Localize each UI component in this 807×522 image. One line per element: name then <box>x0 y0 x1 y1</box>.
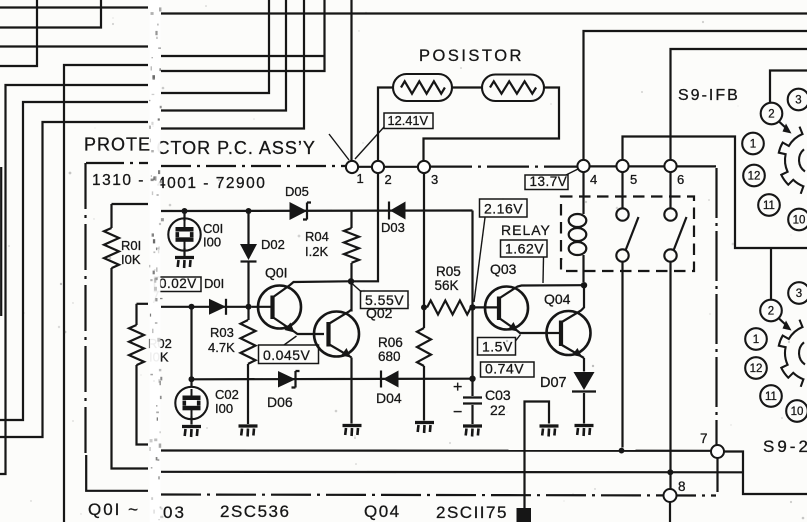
wire W7 left continuation <box>0 85 148 474</box>
svg-text:10: 10 <box>793 215 806 227</box>
wire W9 left continuation <box>0 122 148 437</box>
svg-text:8: 8 <box>678 479 686 494</box>
resistor R05 <box>427 301 471 315</box>
svg-text:Q03: Q03 <box>490 261 517 277</box>
wire ground loop <box>525 402 550 511</box>
svg-text:3: 3 <box>795 95 801 107</box>
ground loop gnd <box>540 426 559 437</box>
svg-text:2.16V: 2.16V <box>484 201 523 217</box>
svg-text:0.045V: 0.045V <box>263 347 311 363</box>
protector box bottom-left heavy corner <box>86 455 148 491</box>
svg-text:56K: 56K <box>435 278 459 293</box>
svg-text:1: 1 <box>357 171 364 186</box>
node 8 <box>664 489 677 502</box>
S9-2 contact 10 <box>786 400 807 422</box>
svg-text:0.74V: 0.74V <box>485 361 524 377</box>
wire node 8 down <box>669 502 671 522</box>
wire D03 row corner down <box>471 211 473 308</box>
svg-text:S9-2: S9-2 <box>763 437 807 456</box>
diode D05 <box>290 202 312 220</box>
node 1 <box>346 161 358 173</box>
svg-text:D07: D07 <box>540 375 567 391</box>
junction R05 left <box>421 304 427 310</box>
protector box top border heavy node4-node6 <box>577 165 716 167</box>
relay contact A <box>616 173 638 448</box>
leader 1.5V <box>516 335 521 342</box>
ground Q02 <box>343 426 362 437</box>
leader 5.55V <box>352 284 362 293</box>
S9-1FB contact 2 <box>761 103 783 125</box>
svg-text:22: 22 <box>490 402 506 418</box>
svg-text:11: 11 <box>765 391 777 403</box>
svg-text:D04: D04 <box>376 390 402 406</box>
wire W8 corner from top <box>161 0 286 111</box>
S9-2 rotor <box>779 320 805 387</box>
label 0.02V <box>155 277 202 292</box>
wire W7 corner from top <box>161 0 269 93</box>
svg-text:I00: I00 <box>215 401 233 416</box>
resistor R04 <box>344 211 359 279</box>
diode D06 <box>278 371 300 388</box>
S9-2 contact 11 <box>760 385 782 407</box>
capacitor C03 <box>463 379 482 424</box>
transistor Q03 <box>476 285 582 333</box>
wire Q03 base node to C03 <box>471 307 473 378</box>
diode D02 <box>240 211 257 307</box>
wire W9 corner from top <box>161 0 304 129</box>
S9-2 contact 12 <box>745 357 767 379</box>
junction D02/D05 <box>246 208 252 214</box>
protector box left border chain <box>84 163 86 456</box>
svg-text:4.7K: 4.7K <box>208 340 235 355</box>
node 3 <box>418 161 430 173</box>
svg-text:R06: R06 <box>378 335 403 350</box>
svg-text:S9-IFB: S9-IFB <box>678 87 740 104</box>
posistor TH1 element <box>401 81 445 93</box>
svg-text:RELAY: RELAY <box>501 222 551 238</box>
svg-text:2SC536: 2SC536 <box>220 502 290 521</box>
svg-text:1.5V: 1.5V <box>482 339 513 355</box>
wire W5 corner from top <box>161 0 325 71</box>
wire to node 4 corner <box>584 31 807 160</box>
junction C02 node <box>189 376 195 382</box>
svg-text:R0I: R0I <box>121 238 141 253</box>
svg-text:D05: D05 <box>285 184 309 199</box>
S9-2 contact 3 <box>788 282 807 304</box>
svg-text:6: 6 <box>677 172 684 187</box>
S9-1FB rotor <box>779 127 805 194</box>
label 12.41V <box>384 113 433 129</box>
ground C01 <box>175 258 194 269</box>
svg-text:12: 12 <box>748 171 761 183</box>
leader 0.045V <box>284 336 297 345</box>
ground C02 <box>182 427 201 438</box>
junction contact A on bus <box>619 448 625 454</box>
capacitor C01 <box>168 211 200 256</box>
svg-text:13.7V: 13.7V <box>530 174 568 189</box>
diode D01 <box>209 299 226 315</box>
svg-text:I00: I00 <box>203 235 221 250</box>
S9-1FB contact 11 <box>758 194 780 216</box>
protector box top border chain (left) <box>86 162 148 164</box>
resistor R03 <box>241 307 256 424</box>
svg-text:3: 3 <box>431 172 438 187</box>
wire D06-D04 row <box>192 378 473 381</box>
junction C03 node <box>469 376 475 382</box>
wire W8 left continuation <box>0 102 148 420</box>
leader 12.41V to node 1 <box>355 127 384 159</box>
protector box bottom border chain <box>161 495 716 496</box>
leader 1.62V <box>542 258 545 284</box>
svg-text:I0K: I0K <box>121 252 141 267</box>
label 0.045V <box>259 345 319 364</box>
svg-text:03: 03 <box>163 503 186 522</box>
svg-text:680: 680 <box>378 349 401 364</box>
leader 2.16V <box>474 218 485 303</box>
wire W1 top horizontal (left of seam) <box>0 6 148 8</box>
svg-text:D0I: D0I <box>204 276 224 291</box>
S9-2 wiper arrow <box>779 319 792 331</box>
S9-1FB contact 1 <box>742 133 764 155</box>
junction relay coil node <box>581 282 587 288</box>
svg-text:2: 2 <box>385 172 392 187</box>
scan noise specks <box>363 290 366 293</box>
svg-text:R05: R05 <box>436 264 461 279</box>
svg-text:2: 2 <box>768 109 774 121</box>
label 5.55V <box>361 291 409 309</box>
svg-text:D02: D02 <box>261 237 285 252</box>
diode D07 <box>572 372 596 424</box>
node 6 <box>664 160 676 172</box>
svg-text:CTOR P.C. ASS’Y: CTOR P.C. ASS’Y <box>157 138 316 158</box>
wire posistor left to node 2 <box>378 88 393 162</box>
svg-text:Q02: Q02 <box>366 305 393 321</box>
node 2 <box>372 161 384 173</box>
leader 0.02V <box>154 292 159 304</box>
label 0.74V <box>481 362 535 377</box>
svg-text:12: 12 <box>750 363 763 375</box>
wire posistor right to node 3 <box>424 88 560 162</box>
S9-1FB wiper arrow <box>779 122 792 134</box>
wire W4 (left of seam) <box>0 45 148 47</box>
posistor TH1 body <box>393 74 452 101</box>
transistor Q02 <box>314 281 359 423</box>
wire to S9-1FB contact 2 <box>770 71 807 104</box>
svg-text:+: + <box>453 379 462 396</box>
svg-text:0.02V: 0.02V <box>159 276 197 291</box>
diode D03 <box>389 202 406 220</box>
node 5 <box>616 160 628 172</box>
svg-text:Q04: Q04 <box>544 291 571 307</box>
protector box top border solid node1-node3 <box>346 166 430 168</box>
S9-1FB contact 12 <box>743 165 765 187</box>
svg-text:D06: D06 <box>267 394 293 410</box>
posistor TH2 element <box>490 81 536 93</box>
svg-text:4001 - 72900: 4001 - 72900 <box>157 175 266 192</box>
ground D07 <box>575 426 594 437</box>
label 1.62V <box>501 240 548 257</box>
S9-2 contact 2 <box>760 300 782 322</box>
label 2.16V <box>480 199 528 217</box>
ground R06 <box>415 423 434 434</box>
wire node 2 to collector junction <box>354 173 378 281</box>
relay box <box>561 197 694 272</box>
wire W3 corner <box>0 0 37 66</box>
relay contact B <box>664 173 686 490</box>
capacitor C02 <box>175 379 207 424</box>
wire node 5 loop around switch <box>623 137 807 249</box>
scan seam artifact <box>150 0 161 522</box>
svg-text:12.41V: 12.41V <box>388 113 429 128</box>
resistor R06 <box>417 307 431 420</box>
svg-text:C03: C03 <box>485 387 511 403</box>
wire D01 node down <box>190 307 192 380</box>
ground C03 <box>463 426 482 437</box>
svg-text:R04: R04 <box>305 229 329 244</box>
connector blob <box>517 508 532 522</box>
svg-text:11: 11 <box>763 200 775 212</box>
wire node 3 column <box>423 173 425 307</box>
svg-text:4: 4 <box>590 172 597 187</box>
transistor Q04 <box>547 285 591 371</box>
svg-text:7: 7 <box>700 431 708 446</box>
bus wire A <box>161 449 711 451</box>
posistor TH2 body <box>482 75 544 102</box>
bus wire B <box>161 471 743 474</box>
junction Q01 base node <box>246 304 252 310</box>
node 7 <box>711 445 724 458</box>
svg-text:Q0I: Q0I <box>265 265 288 281</box>
svg-text:1: 1 <box>753 334 759 346</box>
junction Q03 base node <box>469 304 475 310</box>
wire W4 (right of seam) <box>161 55 325 57</box>
svg-text:1: 1 <box>750 139 756 151</box>
svg-text:Q04: Q04 <box>364 502 401 521</box>
resistor R02 and bus feeder <box>129 304 148 445</box>
wire W5 left continuation down left margin <box>64 65 148 522</box>
svg-text:POSISTOR: POSISTOR <box>419 47 524 65</box>
svg-text:D03: D03 <box>381 220 405 235</box>
wire to lower switch contact 2 <box>770 248 772 300</box>
wire W1 top horizontal (right of seam) <box>161 12 807 14</box>
wire D05 row <box>161 209 473 212</box>
svg-text:I.2K: I.2K <box>305 244 328 259</box>
wire to node 6 corner <box>671 49 807 160</box>
label 1.5V <box>478 338 516 356</box>
svg-text:PROTE: PROTE <box>84 135 151 155</box>
leader line to node 1 <box>329 134 349 160</box>
S9-1FB contact 10 <box>788 209 807 231</box>
svg-text:10: 10 <box>791 406 804 418</box>
wire from top to node 1 <box>350 0 352 161</box>
junction Q01 collector node <box>348 278 354 284</box>
node 4 <box>577 160 589 172</box>
svg-text:5: 5 <box>630 172 637 187</box>
protector box right border chain <box>717 168 718 492</box>
junction D01 anode <box>189 304 195 310</box>
ground R03 <box>239 426 258 437</box>
svg-text:1310 -: 1310 - <box>92 172 145 189</box>
wire W2 corner <box>0 0 101 28</box>
protector box top border chain (seam to node1) <box>161 165 346 167</box>
protector box top border chain node3-node4 <box>430 166 577 168</box>
S9-2 contact 1 <box>745 328 767 350</box>
S9-1FB contact 3 <box>788 89 807 111</box>
svg-text:1.62V: 1.62V <box>505 241 544 257</box>
label 13.7V <box>525 175 568 190</box>
svg-text:2: 2 <box>768 306 774 318</box>
wire base row left of seam <box>137 303 149 305</box>
svg-text:3: 3 <box>796 288 802 300</box>
svg-text:C02: C02 <box>215 387 239 402</box>
wire base row <box>161 306 251 308</box>
resistor R01 <box>104 204 148 469</box>
svg-text:2SCII75: 2SCII75 <box>436 503 508 522</box>
leader 13.7V to node 4 <box>566 169 578 175</box>
relay coil <box>569 173 587 283</box>
diode D04 <box>381 371 399 388</box>
wire node 7 out <box>724 452 807 495</box>
wire R01 row (left of seam) <box>112 203 149 205</box>
svg-text:−: − <box>453 404 462 421</box>
junction node8 column on bus <box>667 469 673 475</box>
edge artifact line <box>0 167 2 316</box>
svg-text:Q0I ~: Q0I ~ <box>88 500 140 519</box>
svg-text:R03: R03 <box>210 325 234 340</box>
junction C01 <box>182 208 188 214</box>
transistor Q01 <box>252 281 349 334</box>
wire posistor link <box>452 86 482 88</box>
